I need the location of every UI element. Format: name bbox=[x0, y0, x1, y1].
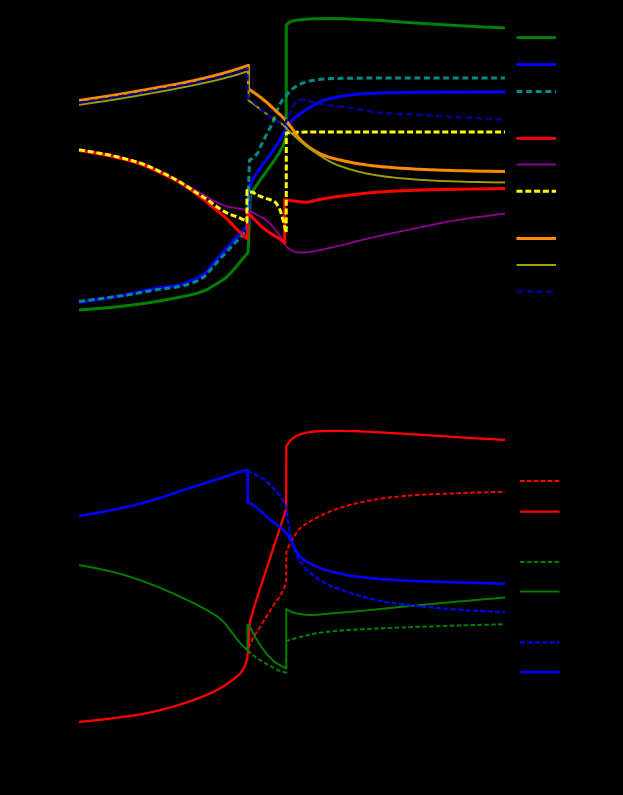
legend sample y2 meas (green solid) bbox=[520, 591, 560, 593]
curve bottom x3 estimate (blue dashed) bbox=[248, 470, 505, 612]
curve bottom x1 estimate (red dashed) bbox=[249, 492, 506, 648]
curve top x9 (navy dashed) bbox=[79, 68, 505, 125]
curve bottom x2 estimate (green dashed) bbox=[248, 624, 505, 672]
legend sample x7 (orange solid) bbox=[517, 237, 557, 240]
legend sample y2 est (green dashed) bbox=[520, 561, 560, 563]
curve bottom x3 measured (blue solid) bbox=[79, 470, 505, 583]
legend sample y3 meas (blue solid) bbox=[520, 671, 560, 674]
legend sample x1 (green solid) bbox=[517, 36, 557, 39]
legend sample y1 est (red dashed) bbox=[520, 480, 560, 482]
curve top x1 (green solid) bbox=[79, 19, 505, 310]
curve bottom x2 measured (green solid) bbox=[79, 565, 505, 668]
legend sample x9 (navy dashed) bbox=[517, 290, 557, 293]
legend sample x5 (purple solid) bbox=[517, 164, 557, 166]
legend sample x8 (olive solid) bbox=[517, 264, 557, 266]
legend sample x6 (yellow dashed) bbox=[517, 190, 557, 193]
curve top x3 (teal dashed) bbox=[79, 78, 505, 302]
legend sample x3 (teal dashed) bbox=[517, 90, 557, 93]
curve top x6 (yellow dashed) bbox=[79, 132, 505, 233]
legend sample y1 meas (red solid) bbox=[520, 510, 560, 512]
curve top x2 (blue solid) bbox=[79, 92, 505, 303]
curve top x7 (orange solid) bbox=[79, 65, 505, 171]
curve top x4 (red solid) bbox=[79, 151, 505, 244]
curve bottom x1 measured (red solid) bbox=[79, 431, 505, 722]
legend sample x4 (red solid) bbox=[517, 137, 557, 140]
curve top x5 (purple solid) bbox=[79, 150, 505, 253]
legend sample x2 (blue solid) bbox=[517, 63, 557, 66]
curve top x8 (olive solid) bbox=[79, 71, 505, 183]
legend sample y3 est (blue dashed) bbox=[520, 641, 560, 643]
